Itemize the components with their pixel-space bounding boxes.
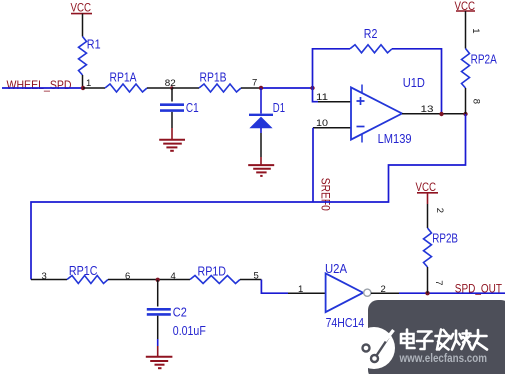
svg-text:7: 7 — [252, 77, 257, 88]
svg-text:SPD_OUT: SPD_OUT — [455, 281, 503, 295]
svg-text:4: 4 — [171, 271, 176, 282]
resistor RP1B (pins 2-7) — [172, 87, 199, 89]
svg-text:10: 10 — [316, 118, 328, 129]
svg-text:1: 1 — [470, 28, 481, 33]
resistor RP2B (pins 2-7) — [424, 228, 432, 267]
svg-text:2: 2 — [381, 284, 386, 295]
wire pin 10 — [313, 127, 351, 129]
svg-text:RP1B: RP1B — [200, 71, 227, 85]
net label SREF0 — [312, 128, 314, 202]
ground under D1 — [260, 157, 262, 165]
svg-text:LM139: LM139 — [378, 132, 412, 146]
svg-text:8: 8 — [470, 99, 481, 104]
svg-text:www.elecfans.com: www.elecfans.com — [399, 353, 487, 365]
junction node (pin 1, R1) — [81, 86, 85, 90]
svg-text:5: 5 — [254, 270, 259, 281]
diode D1 — [260, 88, 262, 114]
resistor RP2A (pins 1-8) — [462, 49, 470, 89]
ground under C1 — [171, 128, 173, 140]
resistor R1 — [79, 37, 87, 76]
svg-text:VCC: VCC — [416, 180, 437, 194]
watermark disc icon — [353, 327, 395, 369]
wire U2A output — [371, 292, 399, 294]
wire to D1 node — [261, 87, 313, 89]
ground under C2 — [157, 346, 159, 357]
svg-text:7: 7 — [433, 280, 444, 285]
svg-text:RP1A: RP1A — [110, 71, 138, 85]
svg-text:RP1D: RP1D — [198, 265, 227, 279]
op-amp U1D LM139 — [351, 87, 402, 139]
svg-text:1: 1 — [298, 284, 303, 295]
svg-text:U1D: U1D — [403, 76, 425, 90]
inverter U2A 74HC14 — [326, 273, 364, 312]
watermark text dian zi fa shao you — [401, 330, 487, 350]
svg-text:SREF0: SREF0 — [319, 178, 333, 211]
node 82 (C1 tap) — [170, 86, 173, 89]
svg-text:6: 6 — [125, 271, 130, 282]
wire WHEEL_SPD — [2, 87, 83, 89]
resistor RP1A (pins 1-8) — [83, 87, 105, 89]
svg-text:11: 11 — [316, 92, 328, 103]
junction node D1 tap — [259, 86, 263, 90]
svg-text:13: 13 — [421, 104, 434, 115]
wire to U2A input — [261, 280, 288, 294]
junction node R2/output — [439, 112, 443, 116]
svg-text:C2: C2 — [173, 305, 187, 319]
resistor R2 — [313, 49, 351, 88]
junction node C2 tap — [156, 278, 160, 282]
wire output pin 13 — [402, 113, 466, 115]
svg-text:VCC: VCC — [71, 1, 92, 15]
svg-text:3: 3 — [42, 271, 47, 282]
junction node RP2A/output — [463, 112, 467, 116]
svg-text:R1: R1 — [87, 38, 101, 52]
svg-text:U2A: U2A — [325, 262, 348, 276]
svg-text:D1: D1 — [273, 101, 285, 115]
junction node feedback — [310, 86, 314, 90]
resistor RP1D (pins 4-5) — [190, 276, 240, 284]
svg-text:0.01uF: 0.01uF — [173, 324, 206, 338]
svg-text:1: 1 — [86, 78, 91, 89]
svg-text:R2: R2 — [364, 27, 378, 41]
resistor RP1C (pins 3-6) — [31, 279, 67, 281]
svg-text:RP2B: RP2B — [432, 232, 458, 246]
capacitor C1 — [171, 88, 173, 102]
svg-text:WHEEL_SPD: WHEEL_SPD — [7, 78, 72, 92]
svg-text:C1: C1 — [186, 101, 199, 115]
svg-text:82: 82 — [165, 78, 176, 89]
watermark box (elecfans) — [368, 300, 505, 374]
wire output to second stage — [31, 114, 466, 280]
wire pin 11 — [313, 88, 319, 102]
svg-text:RP2A: RP2A — [471, 53, 498, 67]
svg-text:RP1C: RP1C — [69, 264, 98, 278]
junction node RP2B — [425, 291, 429, 295]
capacitor C2 — [157, 280, 159, 307]
svg-text:74HC14: 74HC14 — [326, 316, 365, 330]
inverter bubble — [364, 289, 371, 296]
svg-text:2: 2 — [434, 208, 445, 213]
